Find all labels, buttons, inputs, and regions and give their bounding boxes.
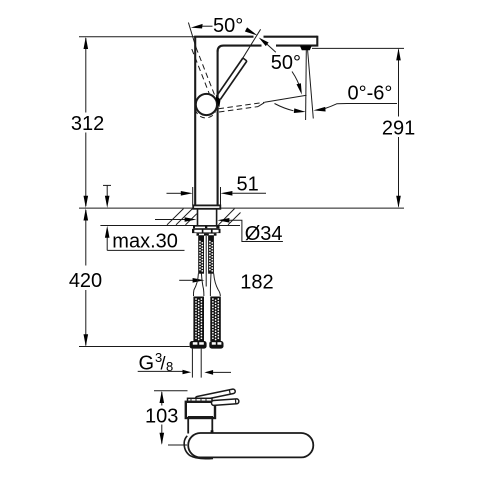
countertop hatching left [167, 209, 197, 225]
svg-text:/: / [161, 354, 166, 374]
182 dimension arrow [179, 278, 204, 283]
Ø34 right arrow with leader to label [218, 218, 283, 242]
103 bottom extension line [168, 444, 187, 446]
second 50deg arc lower arrow [297, 83, 302, 94]
svg-text:420: 420 [69, 270, 102, 292]
dimension line 103 [160, 391, 165, 445]
dashed handle down position [219, 102, 265, 112]
spout horizontal bar [195, 36, 317, 52]
G3/8 right arrow with tail [204, 370, 231, 375]
extension line spout outlet level (291 top) [312, 47, 404, 49]
spout end swivel line tilted (6deg) [308, 50, 314, 119]
spout outlet (aerator, filled) [300, 46, 312, 51]
51 dimension extension lines [193, 187, 221, 206]
dashed handle up position (rotated lever) [192, 48, 215, 98]
handle down axis extension (solid thin) [265, 95, 307, 102]
svg-text:Ø34: Ø34 [245, 223, 283, 245]
hose end caps (G3/8 connectors) [190, 341, 224, 349]
countertop hatching right [219, 209, 241, 225]
countertop top line [79, 207, 404, 209]
arrow onto dashed axis (first 50deg left) [191, 24, 203, 29]
label Ø34 [245, 223, 283, 245]
leader for first 50deg [202, 25, 213, 27]
ball joint circle [196, 94, 217, 115]
Ø34 left arrow with tail [155, 217, 197, 222]
dimension line 420 vertical [84, 208, 89, 346]
label max.30 with underline [107, 231, 184, 253]
top view: small dot at neck [211, 430, 214, 433]
svg-text:50°: 50° [213, 15, 243, 37]
extension line bottom of hoses (420 end) [79, 346, 190, 348]
braided hoses [193, 297, 220, 342]
arrow onto lever axis (first 50deg right) [245, 27, 258, 35]
angle label 50 degrees (first, top) [213, 15, 243, 37]
top view: neck [188, 418, 212, 434]
top view: lever handle bar [195, 389, 236, 402]
51 dimension line with outside arrows [167, 191, 267, 196]
dashed handle axis extension above spout [188, 23, 196, 49]
svg-text:103: 103 [145, 405, 178, 427]
svg-text:182: 182 [240, 271, 273, 293]
svg-text:291: 291 [382, 118, 415, 140]
svg-text:312: 312 [71, 113, 104, 135]
svg-text:0°-6°: 0°-6° [348, 82, 393, 104]
hose connector lines below left cap [192, 349, 201, 378]
top view: body block [186, 398, 215, 418]
faucet column (body) [195, 36, 217, 205]
threaded studs [198, 236, 214, 274]
svg-text:51: 51 [236, 174, 258, 196]
dimension line 291 vertical [396, 48, 401, 208]
max.30 upper arrow (down) with stem [103, 185, 111, 208]
mounting shank (hole edges) [198, 209, 217, 226]
max.30 lower arrow (up) with stem [105, 226, 110, 251]
label 182 [240, 271, 273, 293]
svg-text:50°: 50° [271, 52, 301, 74]
label 51 [236, 174, 258, 196]
fixing washer stack [192, 226, 221, 236]
0-6deg arc right tail with arrow [313, 104, 347, 112]
hose neck curves [193, 274, 220, 297]
svg-text:max.30: max.30 [112, 231, 178, 253]
top view: spout stub [211, 399, 239, 406]
dimension line 312 vertical [84, 37, 89, 208]
second 50deg arc segment B [292, 72, 301, 92]
label 312 [71, 113, 104, 135]
0-6deg arc left tail with arrow [275, 104, 306, 114]
label 291 [382, 118, 415, 140]
103 top extension line [154, 390, 188, 392]
spout end swivel line vertical (0deg) [305, 50, 308, 120]
dashed ball outline (rotated position) [195, 110, 215, 118]
angle label 50 degrees (second) [271, 52, 301, 74]
label G 3/8 with underline [138, 350, 186, 375]
center line between studs [205, 236, 207, 287]
second 50deg arc segment A [267, 44, 276, 52]
G3/8 left arrow [183, 370, 192, 375]
label 420 [69, 270, 102, 292]
top view: under-spout outline [184, 436, 213, 459]
top view: spout stadium outline [188, 433, 313, 457]
label 0-6 degrees with underline [347, 82, 397, 104]
lever axis extension line [242, 29, 261, 59]
extension line top-left (faucet top level) [79, 36, 196, 38]
lever handle (solid position) [216, 58, 247, 107]
second 50deg arc upper arrow [259, 38, 269, 47]
base plate [193, 205, 220, 208]
label 103 [145, 405, 178, 427]
countertop underside line [100, 225, 240, 227]
